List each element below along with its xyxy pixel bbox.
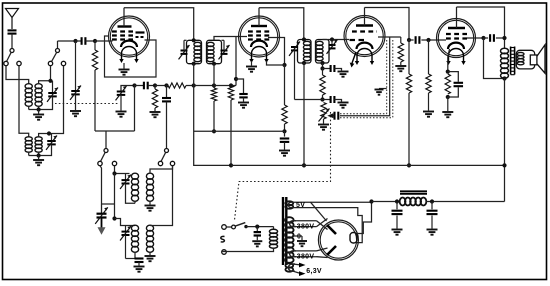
- wire T2a tank bottom: [29, 144, 52, 155]
- tube V3 cathode lead arrow: [352, 52, 357, 65]
- output transformer primary: [501, 48, 509, 78]
- ground V1 cathode: [123, 63, 125, 69]
- ground V4 cathode: [447, 97, 449, 111]
- wire V2 plate to IF2: [259, 8, 304, 40]
- node IF1 primary bottom: [192, 62, 196, 66]
- node V4 cathode bottom: [446, 95, 450, 99]
- node IF2 B+ bus: [302, 163, 306, 167]
- wire IF2 trimmer to AVC/volume line: [294, 50, 296, 99]
- tube V1 grids: [112, 30, 133, 32]
- capacitor C13 line filter: [256, 227, 258, 232]
- wire IF2 primary bottom to B+ bus: [303, 63, 305, 165]
- output transformer laminated core: [511, 47, 515, 75]
- wire cathode cap branch: [448, 72, 459, 82]
- node row A: [132, 83, 136, 87]
- wire shielded grid lead: [340, 37, 390, 116]
- wire jog to T2 top: [115, 219, 136, 226]
- node R1 top: [93, 39, 97, 43]
- node B+ output transformer: [502, 163, 506, 167]
- wire switch to primary: [246, 226, 274, 228]
- speaker voice coil frame: [516, 50, 534, 69]
- svg-text:380V: 380V: [297, 224, 315, 231]
- filter choke: [400, 198, 427, 206]
- AC plug terminal lower: [222, 250, 227, 255]
- wire T2a coil bottoms: [28, 152, 30, 156]
- resistor R11 grid leak V4: [428, 40, 430, 74]
- node IF2 primary bottom: [302, 61, 306, 65]
- wire C10 return: [448, 87, 459, 97]
- trimmer CT1a: [52, 81, 54, 93]
- tube V3 grid: [352, 30, 377, 32]
- wire T1a secondary top: [39, 81, 51, 84]
- shield box V1 oscillator: [105, 36, 157, 77]
- IF2 primary coil: [303, 41, 310, 60]
- wire V2 grid drop: [235, 37, 237, 86]
- wire V4 screen: [467, 37, 484, 39]
- wire osc T2 secondary top to S4b: [150, 166, 173, 226]
- ground V2 cathode: [251, 61, 253, 66]
- tube V4 grids: [446, 33, 467, 35]
- capacitor C2 padder: [144, 82, 148, 90]
- ground osc T2 secondary: [149, 252, 151, 255]
- coil T1a primary: [25, 84, 32, 107]
- resistor R6 screen dropper: [284, 65, 286, 105]
- tube V2 grids: [248, 30, 270, 32]
- wire IF1 secondary top to V2 grid: [214, 37, 247, 41]
- shield dotted left vertical: [386, 40, 388, 114]
- wire osc T1 secondary top to S4b: [150, 166, 173, 174]
- node filter cap 2: [430, 199, 434, 203]
- ground C12: [138, 262, 140, 266]
- node V4 grid: [426, 38, 430, 42]
- switch S2 contact a: [48, 61, 52, 65]
- wire HV center tap: [292, 235, 302, 237]
- node output primary bottom: [502, 76, 506, 80]
- shield dotted right vertical: [392, 40, 394, 118]
- capacitor C12 tracking: [135, 257, 144, 259]
- node IF2 secondary bottom: [320, 61, 324, 65]
- rectifier filament tab: [350, 233, 357, 244]
- filter choke core: [400, 190, 427, 192]
- resistor R1 grid leak V1: [94, 41, 96, 50]
- wire R1 to oscillator line: [94, 70, 96, 131]
- switch S4 pole: [165, 149, 169, 153]
- tube V2 envelope: [239, 16, 280, 57]
- wire to diode load: [322, 63, 324, 69]
- resistor R3 horizontal: [167, 85, 169, 87]
- wire trimmer to T1 bottom: [126, 184, 136, 204]
- resistor R7 diode load: [322, 69, 324, 76]
- node V3 plate load: [407, 38, 411, 42]
- capacitor C15 filter output: [431, 202, 433, 210]
- arrow to volume wiper: [333, 115, 335, 117]
- wire 5V top lead to B+ node: [292, 201, 372, 203]
- resistor R10 plate load: [408, 40, 410, 74]
- capacitor C4: [239, 94, 247, 97]
- capacitor C-grid V1: [82, 37, 86, 45]
- node AVC line at R4: [212, 129, 216, 133]
- switch S4 contact a: [158, 161, 162, 165]
- node line cap: [255, 225, 259, 229]
- wire screen node to cathode: [267, 61, 285, 65]
- capacitor C11 tone: [484, 37, 489, 39]
- wire AVC line: [194, 130, 285, 132]
- ground T2a: [38, 156, 40, 160]
- wire B+ to output transformer: [504, 79, 506, 202]
- wire row A down: [134, 86, 136, 132]
- IF2 primary trimmer: [291, 47, 298, 50]
- shield dotted top horizontal: [340, 113, 387, 115]
- wire antenna to switch S1: [11, 34, 13, 49]
- coil T2a primary: [25, 137, 32, 152]
- node R5 B+ bus: [229, 163, 233, 167]
- trimmer CT2a: [51, 134, 53, 141]
- rectifier V5 envelope: [318, 220, 358, 260]
- wire pot to ground: [323, 119, 325, 124]
- switch S3 riser: [105, 131, 107, 149]
- switch S2 contact b: [61, 61, 65, 65]
- wire R1 node to V1 grid: [95, 40, 113, 42]
- wire 5V diagonal filament lead: [311, 202, 327, 221]
- tube V3 envelope: [344, 16, 385, 57]
- node filter cap 1: [395, 199, 399, 203]
- ground C6: [338, 72, 349, 77]
- wire IF2 secondary top to V3 diode: [323, 39, 350, 41]
- wire C2 to node B: [148, 85, 155, 87]
- wire link to T1 line: [102, 203, 115, 205]
- IF1 primary trimmer: [181, 51, 188, 54]
- wire S2b to T2a secondary node: [49, 66, 64, 134]
- switch S2 riser to grid line: [57, 41, 59, 48]
- wire S2a to T1a secondary node: [50, 66, 52, 81]
- switch S1 lever: [7, 52, 12, 61]
- IF2 secondary can: [316, 40, 330, 64]
- wire choke to B+ line: [426, 201, 505, 203]
- ground osc T1 secondary: [149, 201, 151, 205]
- switch S1 contact a: [4, 61, 8, 65]
- wire T2a secondary top: [39, 134, 49, 138]
- wire T1a coil bottoms: [28, 106, 30, 110]
- ground osc trimmer: [116, 112, 127, 117]
- tube V1 plate: [118, 25, 132, 27]
- power transformer core: [282, 197, 284, 265]
- ground C15: [427, 230, 438, 235]
- node T1a tank: [48, 79, 52, 83]
- capacitor C8 coupling: [335, 112, 339, 120]
- IF1 secondary trimmer: [221, 51, 228, 54]
- ground C14: [392, 230, 403, 235]
- tube V2 cathode and heater: [251, 41, 267, 47]
- output transformer secondary: [517, 52, 524, 64]
- winding HV secondary stack: [285, 217, 294, 263]
- wire 6.3V loop: [288, 264, 295, 271]
- node B+ takeoff: [369, 199, 373, 203]
- wire trimmer to ground: [75, 94, 77, 110]
- tube V2 plate: [251, 25, 267, 27]
- wire screen to primary bottom: [484, 38, 505, 79]
- ground R9: [395, 66, 406, 71]
- node V2 grid bypass: [234, 77, 238, 81]
- svg-text:0: 0: [297, 234, 301, 241]
- rectifier plate lower: [327, 246, 336, 255]
- node R10 B+ bus: [407, 163, 411, 167]
- node volume top: [320, 97, 324, 101]
- node tone cap right: [502, 36, 506, 40]
- ground R11: [423, 112, 434, 117]
- wire B+ staircase to filament tab: [357, 202, 372, 234]
- resistor R9 grid: [400, 37, 402, 43]
- winding 6.3V: [285, 263, 293, 271]
- speaker magnet: [530, 55, 537, 65]
- svg-text:6,3V: 6,3V: [306, 268, 322, 275]
- node T1a ground junction: [37, 107, 41, 111]
- wire C3 to switch S4 pole: [166, 102, 168, 149]
- wire node B to node C: [155, 85, 167, 87]
- power switch lever: [235, 223, 245, 227]
- IF1 primary coil: [194, 42, 201, 61]
- coil T2a secondary: [35, 137, 42, 152]
- wire 6.3V top lead with arrow: [293, 263, 299, 266]
- trimmer C-RF gang section: [75, 41, 77, 91]
- tube V1 oscillator anode: [136, 31, 145, 33]
- resistor R5 screen feed: [228, 86, 233, 101]
- capacitor C-ant: [8, 30, 17, 33]
- node osc T2 feed: [112, 216, 116, 220]
- tube V3 diode plates: [350, 39, 356, 41]
- osc T1 primary coil: [131, 173, 138, 201]
- capacitor C5 AVC: [284, 131, 286, 136]
- IF1 secondary can: [207, 40, 222, 63]
- capacitor C6 RF bypass: [331, 65, 335, 72]
- capacitor C14 filter input: [396, 202, 398, 210]
- wire C9 to V4 grid: [421, 39, 446, 41]
- power switch moving contact: [232, 225, 236, 229]
- wire T1a tank bottom: [29, 96, 53, 109]
- IF2 secondary trimmer: [331, 40, 333, 45]
- trimmer C-OSC gang section: [121, 86, 135, 92]
- gang coupling dotted line: [55, 103, 119, 105]
- capacitor C7: [331, 96, 335, 103]
- wire osc trimmer down: [120, 95, 122, 111]
- node T2a tank: [47, 131, 51, 135]
- switch S3 pole: [104, 149, 108, 153]
- wire T2 primary bottom: [134, 252, 136, 259]
- capacitor C10 cathode bypass: [454, 83, 464, 86]
- switch S3 contact a: [98, 161, 102, 165]
- IF1 secondary coil: [207, 42, 214, 61]
- wire V1 plate to IF1: [124, 8, 194, 41]
- switch S4 contact b: [170, 161, 174, 165]
- antenna: [6, 9, 19, 30]
- node AVC end: [282, 129, 286, 133]
- wire S1b to T2a primary: [19, 66, 29, 137]
- wire to C7: [323, 99, 331, 101]
- wire S1a to T1a primary: [6, 66, 29, 84]
- wire 380V upper leads crossing to plate: [294, 220, 317, 222]
- shield dotted bottom horizontal: [340, 117, 393, 119]
- IF1 primary can: [187, 40, 202, 63]
- resistor R2 to ground: [154, 86, 156, 90]
- node V4 cathode top: [446, 70, 450, 74]
- wire 380V lower leads crossing to plate: [294, 250, 317, 252]
- ground C4: [243, 98, 245, 102]
- osc T2 primary coil: [131, 225, 138, 252]
- node row D: [192, 83, 196, 87]
- wire oscillator band line: [95, 130, 135, 132]
- wire S3b continues to osc T2: [114, 174, 116, 219]
- wire AVC takeoff: [295, 99, 323, 101]
- tube V3 plate: [356, 24, 373, 26]
- node T2a ground junction: [37, 153, 41, 157]
- IF2 secondary coil: [316, 41, 323, 60]
- switch S2 pole: [56, 49, 60, 53]
- speaker cone: [537, 45, 545, 73]
- trimmer osc T2: [125, 226, 127, 232]
- wire primary return: [223, 248, 274, 252]
- coil T1a secondary: [35, 84, 42, 107]
- wire V4 plate to output transformer: [457, 7, 505, 49]
- wire 5V loop: [288, 202, 294, 207]
- rectifier plate upper: [327, 225, 336, 234]
- main tuning capacitor: [101, 204, 103, 213]
- trimmer osc T1: [125, 174, 127, 180]
- wire B+ to choke: [372, 201, 401, 203]
- wire coupling node to C9: [409, 39, 414, 41]
- tube V4 cathode and heater: [448, 43, 464, 49]
- switch S4 lever: [161, 152, 166, 161]
- power transformer primary: [273, 227, 275, 230]
- wire B+ bus: [231, 164, 505, 166]
- wire 380V upper loop: [290, 221, 296, 227]
- switch S2 lever: [52, 52, 57, 61]
- tube V1 envelope: [109, 16, 150, 57]
- ground shield: [379, 88, 387, 90]
- wire grid line V1: [58, 40, 76, 42]
- ground R2: [150, 112, 161, 117]
- chassis arrow main tuning: [101, 218, 103, 229]
- osc T2 secondary coil: [146, 225, 153, 252]
- tube V4 plate: [448, 27, 465, 29]
- ground T1a: [38, 110, 40, 114]
- node IF2 primary top: [302, 37, 306, 41]
- resistor R12 cathode bias: [445, 74, 450, 94]
- potentiometer R8 volume: [321, 103, 326, 120]
- dotted link volume to power switch: [235, 112, 331, 220]
- node osc T1 feed: [112, 171, 116, 175]
- node V2 screen-cathode: [282, 63, 286, 67]
- wire 380V lower loop: [290, 251, 296, 257]
- wire 6.3V bottom lead with arrow: [293, 271, 299, 273]
- winding 5V: [285, 201, 293, 208]
- switch S3 lever: [101, 152, 106, 161]
- wire node D to node E: [194, 85, 214, 87]
- ground center tap: [301, 236, 303, 240]
- AC plug terminal upper: [222, 225, 227, 230]
- ground C5: [284, 142, 286, 149]
- node row E: [212, 83, 216, 87]
- wire to C6: [323, 68, 331, 70]
- wire terminal to switch: [226, 226, 231, 228]
- wire 5V bottom lead staircase to filament tab: [292, 208, 362, 243]
- svg-text:5V: 5V: [296, 202, 305, 209]
- ground C13: [256, 236, 258, 240]
- node tone cap left: [481, 36, 485, 40]
- osc T1 secondary coil: [146, 173, 153, 201]
- wire node E to node F: [214, 85, 231, 87]
- wire row end to V2 grid drop: [231, 85, 236, 87]
- wire C6 to ground: [334, 69, 341, 71]
- capacitor C9 coupling: [416, 36, 420, 44]
- svg-text:380V: 380V: [297, 253, 315, 260]
- node detector: [320, 66, 324, 70]
- wire C7 to ground: [334, 100, 341, 102]
- tube V1 cathode and heater: [121, 41, 137, 47]
- ground C7: [338, 103, 349, 108]
- switch S1 pole: [10, 49, 14, 53]
- tube V3 cathode and heater: [357, 43, 373, 49]
- node row C: [164, 83, 168, 87]
- switch S1 contact b: [17, 61, 21, 65]
- switch S3 contact b: [112, 161, 116, 165]
- ground RF trimmer: [70, 111, 81, 116]
- wire V2 screen: [268, 38, 285, 66]
- wire IF1 primary bottom to B+ bus: [194, 64, 231, 166]
- wire C-grid to R1: [85, 40, 95, 42]
- wire T1 primary bottom stub: [134, 201, 136, 203]
- wire V3 grid return row: [378, 36, 401, 38]
- node IF1 secondary bottom: [212, 62, 216, 66]
- wire V4 cathode lead: [448, 49, 450, 72]
- wire V3 plate to coupling node: [365, 8, 410, 41]
- wire to C-grid: [76, 40, 82, 42]
- tube V4 envelope: [437, 19, 476, 58]
- wire S3b to osc T1 top: [115, 166, 130, 174]
- AC cord squiggle: [221, 236, 225, 242]
- node IF1 primary top: [192, 38, 196, 42]
- power switch fixed contact: [244, 225, 247, 228]
- wire S3a to main tuning cap: [100, 166, 102, 204]
- wire trimmer T2 down: [125, 235, 127, 259]
- IF2 primary can: [298, 40, 312, 64]
- node row B: [153, 83, 157, 87]
- capacitor C3 feedback: [166, 86, 168, 98]
- wire row A to C2: [135, 85, 144, 87]
- node IF2 secondary trimmer: [330, 37, 334, 41]
- node row F: [229, 83, 233, 87]
- node grid cap junction: [73, 39, 77, 43]
- resistor R4 IF1 secondary return: [213, 64, 215, 88]
- wire to C4: [236, 79, 244, 94]
